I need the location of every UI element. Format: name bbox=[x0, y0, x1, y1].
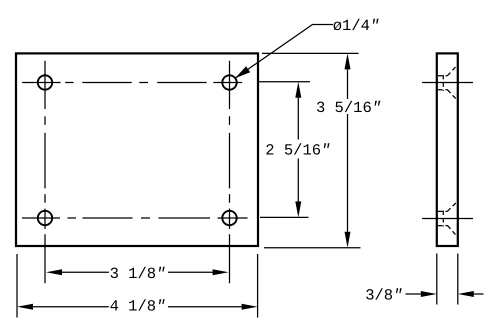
svg-text:ø1/4″: ø1/4″ bbox=[333, 17, 380, 35]
svg-text:3/8″: 3/8″ bbox=[365, 287, 402, 305]
svg-text:3 5/16″: 3 5/16″ bbox=[316, 99, 381, 117]
svg-text:4 1/8″: 4 1/8″ bbox=[110, 298, 166, 316]
svg-text:3 1/8″: 3 1/8″ bbox=[110, 265, 166, 283]
svg-text:2 5/16″: 2 5/16″ bbox=[265, 141, 330, 159]
